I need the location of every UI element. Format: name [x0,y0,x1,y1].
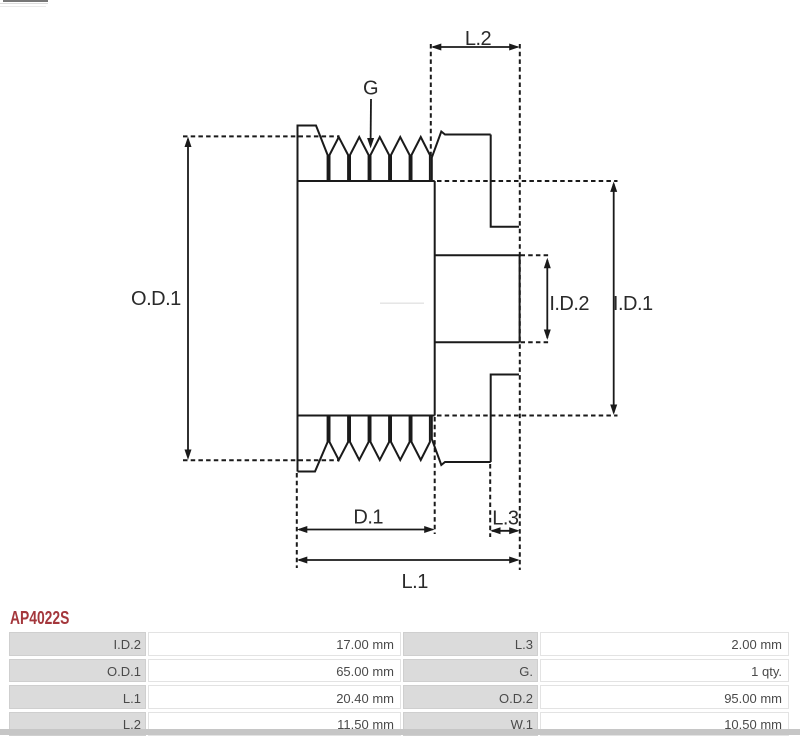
svg-text:D.1: D.1 [353,506,383,528]
svg-text:L.3: L.3 [492,507,519,529]
L.2 L.1 right extension dashed [519,44,521,570]
O.D.1 top extension dashed [183,135,340,137]
right flange right edge top [491,135,519,227]
dimension L.3 [492,530,518,532]
top right flange slant [432,132,491,182]
dimension O.D.1 [187,139,189,457]
hub block [435,254,520,256]
L.3 left extension dashed [489,464,491,537]
svg-text:G: G [363,77,378,99]
I.D.2 top extension dashed [521,254,552,256]
bottom groove teeth [330,416,349,461]
dimension L.1 [299,559,518,561]
pulley left flange bottom [298,416,328,472]
spec table [7,629,791,739]
I.D.1 bottom extension dashed [437,415,618,417]
dimension I.D.2 [546,260,548,338]
dimension L.2 [433,46,518,48]
top groove teeth [330,137,349,181]
bottom right flange slant [432,416,491,466]
right flange right edge bottom [491,375,519,463]
corner smudge [3,0,48,2]
I.D.2 bottom extension dashed [521,341,552,343]
svg-text:L.2: L.2 [465,28,492,50]
faint centerline [380,302,424,304]
dimension I.D.1 [613,184,615,413]
part number [10,608,69,629]
svg-text:I.D.2: I.D.2 [549,293,589,315]
D.1 left extension dashed [296,473,298,568]
I.D.1 top extension dashed [437,180,618,182]
arrow G [370,99,372,141]
svg-text:O.D.1: O.D.1 [131,288,181,310]
pulley body bottom edge [298,415,435,417]
pulley body right edge [434,181,436,416]
svg-text:L.1: L.1 [402,571,429,593]
bottom bar [0,729,800,735]
D.1 right extension dashed [434,417,436,534]
O.D.1 bottom extension dashed [183,459,340,461]
svg-text:I.D.1: I.D.1 [613,293,653,315]
pulley body top edge [298,180,435,182]
pulley left flange outline [298,126,328,472]
dimension D.1 [299,529,433,531]
L.2 left extension dashed [430,44,432,157]
